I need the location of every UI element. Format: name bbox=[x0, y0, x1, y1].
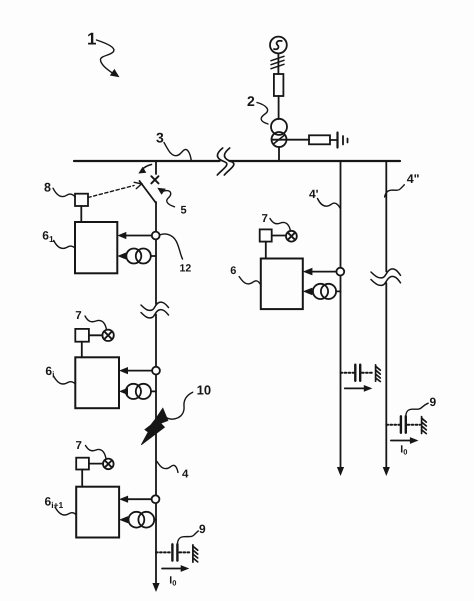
svg-text:10: 10 bbox=[197, 383, 211, 398]
svg-text:7: 7 bbox=[262, 213, 268, 225]
svg-text:5: 5 bbox=[181, 205, 187, 217]
svg-text:8: 8 bbox=[44, 181, 51, 195]
svg-text:9: 9 bbox=[199, 522, 206, 536]
svg-text:7: 7 bbox=[75, 310, 81, 322]
svg-text:2: 2 bbox=[247, 93, 255, 109]
svg-text:3: 3 bbox=[156, 129, 164, 145]
svg-text:1: 1 bbox=[87, 30, 96, 49]
svg-text:4': 4' bbox=[309, 187, 319, 201]
svg-text:6: 6 bbox=[230, 265, 236, 277]
svg-text:4": 4" bbox=[407, 172, 420, 186]
svg-text:9: 9 bbox=[430, 395, 437, 409]
svg-text:7: 7 bbox=[76, 440, 82, 452]
svg-text:4: 4 bbox=[182, 468, 189, 480]
svg-text:12: 12 bbox=[180, 263, 192, 275]
